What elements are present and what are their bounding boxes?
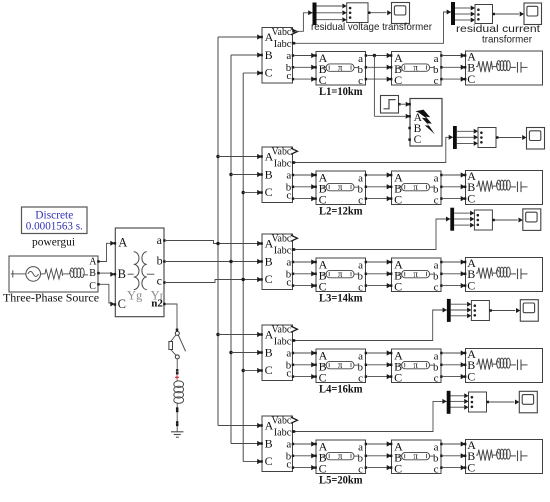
svg-text:C: C [319,371,327,385]
svg-text:B: B [265,48,273,62]
svg-text:C: C [265,185,273,199]
svg-text:π: π [413,63,418,73]
svg-text:c: c [286,70,291,82]
svg-text:π: π [413,451,418,461]
svg-text:C: C [118,297,126,311]
svg-text:c: c [286,277,291,289]
svg-text:C: C [319,280,327,294]
svg-text:Yg: Yg [127,288,143,302]
svg-text:a: a [358,259,363,271]
svg-text:transformer: transformer [482,35,533,46]
svg-text:a: a [286,170,291,182]
svg-text:Vabc: Vabc [272,27,292,38]
svg-text:a: a [358,172,363,184]
svg-text:C: C [319,73,327,87]
svg-text:C: C [265,363,273,377]
svg-text:π: π [413,182,418,192]
svg-text:c: c [286,190,291,202]
svg-text:C: C [265,66,273,80]
svg-text:powergui: powergui [32,235,76,249]
svg-text:a: a [358,350,363,362]
svg-text:A: A [89,256,97,267]
svg-text:C: C [394,73,402,87]
svg-text:Vabc: Vabc [272,233,292,244]
svg-text:π: π [413,269,418,279]
svg-text:C: C [467,369,475,383]
svg-text:a: a [358,441,363,453]
svg-text:c: c [434,282,439,294]
svg-text:c: c [286,368,291,380]
svg-text:π: π [338,182,343,192]
svg-text:B: B [414,123,422,135]
svg-text:π: π [413,360,418,370]
svg-text:b: b [157,254,163,268]
svg-text:0.0001563 s.: 0.0001563 s. [26,221,83,233]
svg-text:a: a [358,53,363,65]
svg-text:L5=20km: L5=20km [319,475,363,487]
svg-text:π: π [338,269,343,279]
svg-text:a: a [157,233,163,247]
svg-text:a: a [286,50,291,62]
svg-text:B: B [265,254,273,268]
svg-text:C: C [394,280,402,294]
svg-text:Yn: Yn [151,289,167,303]
svg-text:Iabc: Iabc [274,245,292,256]
svg-text:a: a [286,257,291,269]
svg-text:c: c [434,195,439,207]
svg-text:Iabc: Iabc [274,427,292,438]
svg-text:c: c [434,75,439,87]
svg-text:B: B [265,436,273,450]
svg-text:C: C [467,278,475,292]
svg-text:C: C [319,462,327,476]
svg-text:a: a [434,259,439,271]
svg-text:Iabc: Iabc [274,336,292,347]
svg-text:L4=16km: L4=16km [319,384,363,396]
svg-text:C: C [394,371,402,385]
svg-text:C: C [319,193,327,207]
svg-text:C: C [467,191,475,205]
svg-text:residual current: residual current [456,24,540,35]
svg-text:C: C [394,193,402,207]
svg-text:B: B [265,167,273,181]
svg-text:B: B [118,267,126,281]
svg-text:C: C [265,454,273,468]
svg-text:a: a [286,439,291,451]
svg-text:L3=14km: L3=14km [319,293,363,305]
svg-text:residual voltage transformer: residual voltage transformer [311,22,433,33]
svg-text:c: c [434,373,439,385]
svg-text:C: C [394,462,402,476]
svg-text:c: c [157,273,162,287]
svg-text:a: a [434,172,439,184]
svg-text:Vabc: Vabc [272,146,292,157]
svg-text:Vabc: Vabc [272,415,292,426]
svg-text:L2=12km: L2=12km [319,206,363,218]
svg-text:a: a [434,350,439,362]
svg-text:C: C [89,281,96,292]
svg-text:Three-Phase Source: Three-Phase Source [3,293,99,305]
svg-text:C: C [467,460,475,474]
svg-text:A: A [118,236,127,250]
svg-text:π: π [338,360,343,370]
svg-text:π: π [338,451,343,461]
svg-text:a: a [434,53,439,65]
svg-text:Vabc: Vabc [272,324,292,335]
svg-text:c: c [286,459,291,471]
svg-text:π: π [338,63,343,73]
svg-text:L1=10km: L1=10km [319,86,363,98]
svg-text:c: c [434,464,439,476]
svg-text:Iabc: Iabc [274,39,292,50]
svg-text:C: C [265,272,273,286]
svg-text:B: B [265,345,273,359]
svg-text:B: B [89,268,96,279]
svg-text:a: a [286,348,291,360]
svg-text:Iabc: Iabc [274,158,292,169]
svg-text:a: a [434,441,439,453]
svg-text:C: C [467,72,475,86]
svg-text:C: C [414,134,422,146]
